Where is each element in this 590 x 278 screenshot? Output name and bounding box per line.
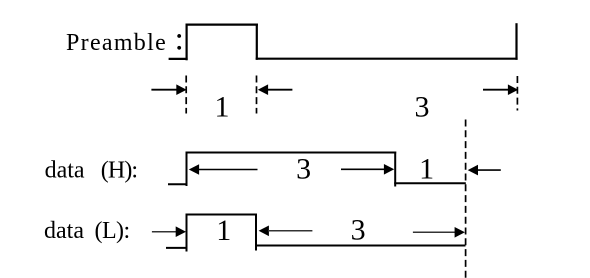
svg-text:(L):: (L): [95, 218, 130, 244]
svg-text:(H):: (H): [101, 157, 137, 183]
svg-text:3: 3 [351, 214, 366, 247]
svg-text:data: data [44, 218, 84, 244]
svg-text:1: 1 [215, 91, 230, 124]
svg-text:3: 3 [296, 152, 311, 185]
svg-text:data: data [45, 157, 85, 183]
svg-text:Preamble: Preamble [66, 30, 167, 56]
svg-text:3: 3 [415, 91, 430, 124]
svg-text:1: 1 [419, 152, 434, 185]
svg-text:1: 1 [216, 214, 231, 247]
svg-text::: : [175, 21, 184, 57]
